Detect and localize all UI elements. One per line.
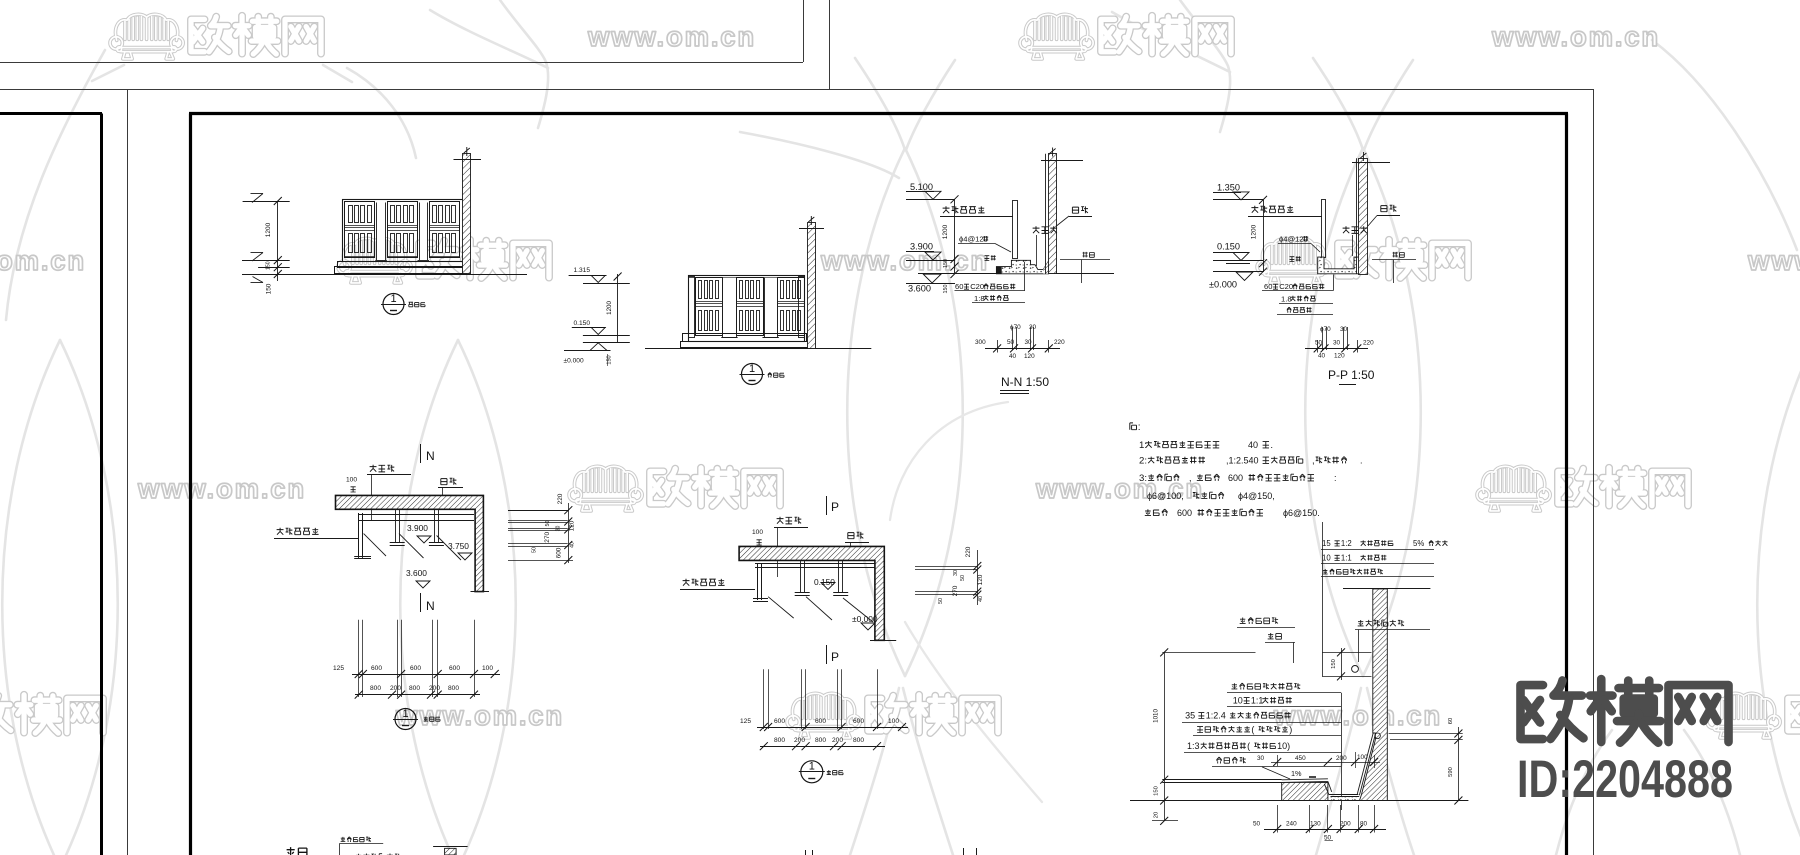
P-P partition board (section) (1322, 200, 1326, 258)
svg-text:50: 50 (938, 598, 944, 604)
plan 1 partition board label (277, 528, 284, 535)
svg-text:40: 40 (1248, 440, 1258, 450)
svg-text:1:1: 1:1 (1251, 696, 1264, 706)
svg-text:30: 30 (1340, 326, 1348, 333)
watermark logo (895,716) (787, 693, 998, 738)
elevation 1 plinth (338, 262, 465, 268)
detail: 150 dim box (1322, 652, 1372, 654)
svg-text:P-P 1:50: P-P 1:50 (1328, 368, 1375, 382)
svg-text:590: 590 (1448, 767, 1454, 777)
plan 1 slope diagonals (364, 534, 386, 556)
svg-text:www.om.cn: www.om.cn (587, 21, 756, 52)
svg-text:5%: 5% (1413, 539, 1424, 548)
svg-text:150: 150 (265, 261, 271, 270)
svg-text:1200: 1200 (942, 224, 949, 239)
svg-text:800: 800 (815, 737, 826, 744)
svg-text:1: 1 (809, 761, 815, 773)
svg-text:2:: 2: (1139, 456, 1147, 467)
watermark logo (1365,261) (1257, 238, 1468, 283)
svg-text:P: P (831, 500, 839, 514)
svg-text:1:2: 1:2 (1341, 539, 1352, 548)
plan 2 trough edge (755, 563, 875, 565)
big site logo bottom right (1521, 679, 1729, 743)
N-N curb with concrete fill (996, 260, 1048, 274)
svg-text:50: 50 (1007, 339, 1015, 346)
svg-text:600: 600 (853, 718, 864, 725)
detail: floor at left (1162, 779, 1281, 781)
P-P trough U-channel (1318, 257, 1361, 274)
svg-text:1200: 1200 (606, 301, 613, 315)
detail: tile labels left (1240, 618, 1246, 624)
plan 1 wall band (L-shape hatch) (336, 495, 484, 591)
svg-text:240: 240 (1286, 821, 1297, 828)
plan 2: section mark P top (826, 496, 828, 515)
svg-text:125: 125 (740, 718, 751, 725)
drawing layer (242, 147, 1468, 855)
elevation 1 dimension chain left (277, 201, 279, 281)
svg-text:150: 150 (943, 285, 949, 294)
svg-text:1:: 1: (1139, 440, 1147, 451)
svg-text:ϕ70: ϕ70 (1320, 326, 1331, 333)
plan 1 title (395, 709, 416, 730)
svg-text:50: 50 (1315, 340, 1323, 347)
elevation 1 partition posts (377, 203, 386, 261)
svg-text:3.600: 3.600 (406, 568, 427, 578)
main sheet thick border (189, 112, 1568, 115)
svg-text:(: ( (1251, 725, 1254, 735)
svg-text:220: 220 (1363, 340, 1374, 347)
svg-text:30: 30 (1029, 324, 1037, 331)
svg-text:130: 130 (1310, 821, 1321, 828)
svg-text:ϕ4@150,: ϕ4@150, (1238, 491, 1275, 501)
svg-text:1.315: 1.315 (574, 267, 591, 274)
elevation 2 wall (808, 223, 816, 349)
svg-text:600: 600 (1177, 508, 1192, 518)
plan 2 right dim block (915, 566, 977, 568)
svg-text:200: 200 (832, 737, 843, 744)
svg-text:30: 30 (1025, 339, 1033, 346)
svg-text:800: 800 (409, 685, 420, 692)
N-N soil label (985, 256, 990, 261)
watermark logo (1128,37) (1020, 14, 1231, 59)
svg-text:200: 200 (1336, 755, 1347, 762)
svg-text:125: 125 (333, 665, 344, 672)
elevation 2 ground line (645, 348, 871, 350)
detail: trough bottom tiles (1324, 784, 1329, 795)
svg-text:P: P (831, 650, 839, 664)
plan 2 title (801, 761, 823, 783)
svg-text:1.8: 1.8 (1281, 294, 1292, 303)
svg-text:ϕ4@120: ϕ4@120 (959, 235, 988, 244)
watermark curves (2, 340, 60, 855)
plan 1: label toilet trough (370, 465, 377, 472)
svg-text:1010: 1010 (1153, 709, 1160, 723)
svg-text:30: 30 (953, 570, 959, 576)
P-P bottom dims (1317, 340, 1319, 353)
svg-text:150: 150 (266, 283, 273, 294)
svg-text:800: 800 (370, 685, 381, 692)
N-N trough label (1033, 226, 1040, 233)
svg-text:www.om.cn: www.om.cn (820, 245, 989, 276)
P-P label partition board (1251, 206, 1258, 213)
svg-text:300: 300 (975, 339, 986, 346)
svg-text:100: 100 (346, 477, 357, 484)
svg-text:600: 600 (815, 718, 826, 725)
svg-text:.: . (1360, 456, 1363, 466)
svg-text:60: 60 (955, 282, 963, 291)
svg-text:.: . (1270, 440, 1273, 451)
svg-text:): ) (1289, 725, 1292, 735)
svg-text:150: 150 (1154, 786, 1160, 796)
svg-text:450: 450 (1295, 755, 1306, 762)
elevation 2 partition assembly (689, 276, 805, 342)
svg-text:10: 10 (1322, 554, 1331, 563)
svg-text:3.600: 3.600 (908, 284, 931, 294)
svg-text:www.om.cn: www.om.cn (395, 700, 564, 731)
elevation 1 partition assembly (343, 200, 464, 262)
svg-text:20: 20 (1154, 812, 1160, 818)
svg-text:600: 600 (449, 665, 460, 672)
svg-text:40: 40 (978, 596, 984, 602)
detail: shower pipe label (1358, 620, 1364, 626)
plan 2 slope diagonals (768, 597, 794, 618)
N-N level 3.600 (923, 274, 941, 283)
svg-text::: : (1334, 473, 1337, 483)
svg-text:N-N 1:50: N-N 1:50 (1001, 375, 1049, 389)
svg-text:40: 40 (569, 542, 575, 548)
N-N dim 1200 (954, 199, 956, 274)
plan 1 dim chain 1 (352, 674, 500, 676)
watermark logo (1815,716) (1707, 693, 1800, 738)
svg-text:1200: 1200 (265, 222, 272, 237)
elevation 2 partition posts (723, 278, 736, 337)
svg-text:100: 100 (1357, 754, 1368, 761)
plan 1: section mark N bottom (420, 593, 422, 612)
svg-text:120: 120 (1024, 353, 1035, 360)
svg-text:www.om.cn: www.om.cn (0, 245, 86, 276)
detail: wall cap (1343, 588, 1430, 590)
detail: bottom dim chain (1277, 805, 1279, 833)
detail: wall hatch (1360, 589, 1388, 801)
N-N partition board (section) (1013, 201, 1018, 259)
svg-text:30: 30 (1257, 755, 1265, 762)
svg-text:50: 50 (545, 521, 551, 527)
svg-text:1.350: 1.350 (1217, 183, 1240, 193)
svg-text:30: 30 (556, 526, 562, 532)
svg-text:ϕ6@100,: ϕ6@100, (1147, 491, 1184, 501)
detail: leader list left (1232, 683, 1238, 689)
plan 1: section mark N top (420, 444, 422, 463)
svg-text:N: N (426, 599, 435, 613)
svg-text:800: 800 (448, 685, 459, 692)
plan 2: label toilet trough (777, 517, 784, 524)
svg-text:C20: C20 (1279, 282, 1293, 291)
plan 1 extension lines (358, 620, 360, 697)
sheet frame lines (0, 62, 803, 64)
detail: ground line (1130, 800, 1468, 802)
svg-text:120: 120 (977, 574, 984, 585)
svg-text:40: 40 (1318, 353, 1326, 360)
N-N ground line (918, 273, 1114, 275)
plan 2 left end panel (757, 563, 759, 600)
plan 1 partition stubs (395, 509, 397, 543)
plan 1 left end panel (358, 513, 360, 558)
svg-text:www.om.cn: www.om.cn (1491, 21, 1660, 52)
svg-text:150: 150 (943, 259, 949, 268)
plan 2 wall band (L-shape hatch) (739, 546, 884, 640)
svg-text:100: 100 (752, 529, 763, 536)
svg-text:1:1: 1:1 (1341, 554, 1352, 563)
plan 2 partial mark bottom (963, 848, 965, 855)
svg-text:3.900: 3.900 (407, 523, 428, 533)
svg-text:ϕ70: ϕ70 (1010, 324, 1021, 331)
N-N bottom dims (997, 340, 999, 353)
svg-text:ϕ6@150.: ϕ6@150. (1283, 508, 1320, 518)
svg-text:40: 40 (1009, 353, 1017, 360)
svg-text:100: 100 (482, 665, 493, 672)
P-P soil label (1290, 257, 1295, 262)
elevation 2 title (742, 364, 763, 385)
P-P level 0.000 (1236, 272, 1253, 281)
svg-text:50: 50 (532, 547, 538, 553)
svg-text:±0.000: ±0.000 (564, 358, 584, 365)
bottom-left partial detail (286, 847, 295, 855)
plan 1 right dim block (508, 510, 568, 512)
P-P trough label (1343, 226, 1350, 233)
svg-text:200: 200 (429, 685, 440, 692)
svg-text:50: 50 (960, 575, 966, 581)
svg-text:150: 150 (1331, 659, 1337, 669)
svg-text:220: 220 (965, 546, 972, 557)
detail: right dims (1389, 733, 1463, 735)
plan 1: wall label (441, 479, 447, 485)
svg-text:30: 30 (1333, 340, 1341, 347)
svg-text:3.750: 3.750 (448, 541, 469, 551)
svg-text:15: 15 (1322, 539, 1331, 548)
svg-text:(: ( (1247, 741, 1250, 751)
detail: low wall hatched (1282, 782, 1328, 800)
N-N floor label (1083, 252, 1088, 258)
plan 2 partition board label (683, 579, 690, 586)
svg-text:270: 270 (544, 531, 551, 542)
svg-text:www.om.cn: www.om.cn (1273, 700, 1442, 731)
svg-text:120: 120 (568, 520, 575, 531)
svg-text:1:3: 1:3 (1187, 741, 1200, 751)
elevation view 1: ground line (242, 274, 527, 276)
svg-text:50: 50 (1253, 821, 1261, 828)
elevation 2 end stiles (689, 277, 695, 338)
P-P floor label (1393, 252, 1398, 258)
svg-text:3.900: 3.900 (910, 242, 933, 252)
detail: left dims (1162, 652, 1255, 654)
plan 2: section mark P bottom (826, 645, 828, 664)
detail: trough speckle (1330, 797, 1358, 800)
svg-text:60: 60 (1264, 282, 1272, 291)
svg-text:600: 600 (556, 547, 563, 558)
svg-text:800: 800 (774, 737, 785, 744)
svg-text:220: 220 (1054, 339, 1065, 346)
svg-text:60: 60 (1448, 718, 1454, 724)
svg-text:800: 800 (853, 737, 864, 744)
plan 2 dim chain 1 (757, 727, 908, 729)
svg-text:±0.000: ±0.000 (1209, 280, 1237, 290)
svg-text:1: 1 (749, 363, 755, 375)
svg-text:600: 600 (774, 718, 785, 725)
svg-text:220: 220 (557, 493, 564, 504)
svg-text:0.150: 0.150 (574, 320, 591, 327)
svg-text:ϕ4@120: ϕ4@120 (1279, 235, 1308, 244)
svg-text:270: 270 (952, 585, 959, 596)
svg-text:,: , (1189, 473, 1192, 483)
N-N wall label (1072, 207, 1078, 213)
svg-text:1:2.4: 1:2.4 (1206, 711, 1226, 721)
P-P leader: cinder compacted (1287, 307, 1291, 313)
svg-text:,: , (1312, 456, 1315, 467)
watermark logo (1585,489) (1477, 466, 1688, 511)
detail: low wall tile top (1282, 779, 1328, 780)
svg-text:600: 600 (410, 665, 421, 672)
N-N wall (1045, 154, 1047, 274)
svg-text:100: 100 (888, 718, 899, 725)
detail: trough slope tile lines (1357, 733, 1373, 794)
svg-text:120: 120 (1334, 353, 1345, 360)
svg-text:1:8: 1:8 (974, 294, 985, 303)
watermark logo (0,716) (0, 693, 103, 738)
svg-text:ID:2204888: ID:2204888 (1517, 750, 1733, 809)
plan 2: wall label (848, 533, 854, 539)
elevation 2 plinth (683, 334, 807, 342)
svg-text:N: N (426, 449, 435, 463)
plan 1 dim chain 2 (355, 694, 480, 696)
plan 2 dim chain 2 (760, 746, 885, 748)
svg-text:3:: 3: (1139, 473, 1147, 484)
P-P wall label (1381, 206, 1387, 212)
notes block (1130, 423, 1137, 430)
svg-text:1%: 1% (1291, 769, 1302, 778)
P-P wall (1356, 158, 1358, 274)
watermark logo (446,261) (338, 238, 549, 283)
svg-text:www.om.cn: www.om.cn (137, 473, 306, 504)
plan 2 extension lines (763, 669, 765, 729)
elevation 1 wall (463, 154, 471, 274)
N-N label partition board (943, 206, 950, 213)
svg-text:1: 1 (390, 293, 396, 305)
svg-text:600: 600 (1228, 473, 1243, 483)
left sheet thick border (0, 112, 102, 115)
svg-text:600: 600 (371, 665, 382, 672)
plan 1 trough edge (358, 514, 474, 516)
svg-text:1200: 1200 (1251, 224, 1258, 239)
svg-text:1: 1 (402, 708, 408, 720)
svg-text:5.100: 5.100 (910, 182, 933, 192)
svg-text:0.150: 0.150 (1217, 242, 1240, 252)
svg-text:35: 35 (1185, 711, 1195, 721)
svg-text:www.om.cn: www.om.cn (1747, 245, 1800, 276)
svg-text:10: 10 (1233, 696, 1243, 706)
elevation 1 title (383, 294, 404, 315)
svg-text:10): 10) (1277, 741, 1290, 751)
P-P dim 1200 (1263, 200, 1265, 272)
svg-text::: : (1138, 422, 1141, 433)
svg-text:C20: C20 (970, 282, 984, 291)
svg-text:200: 200 (1340, 821, 1351, 828)
svg-text:80: 80 (1360, 821, 1368, 828)
svg-text:200: 200 (390, 685, 401, 692)
svg-text:,1:2.540: ,1:2.540 (1226, 456, 1259, 466)
watermark logo (677,489) (569, 466, 780, 511)
watermark logo (218,37) (110, 14, 321, 59)
plan 2 partition stubs (800, 560, 802, 592)
svg-text:200: 200 (794, 737, 805, 744)
